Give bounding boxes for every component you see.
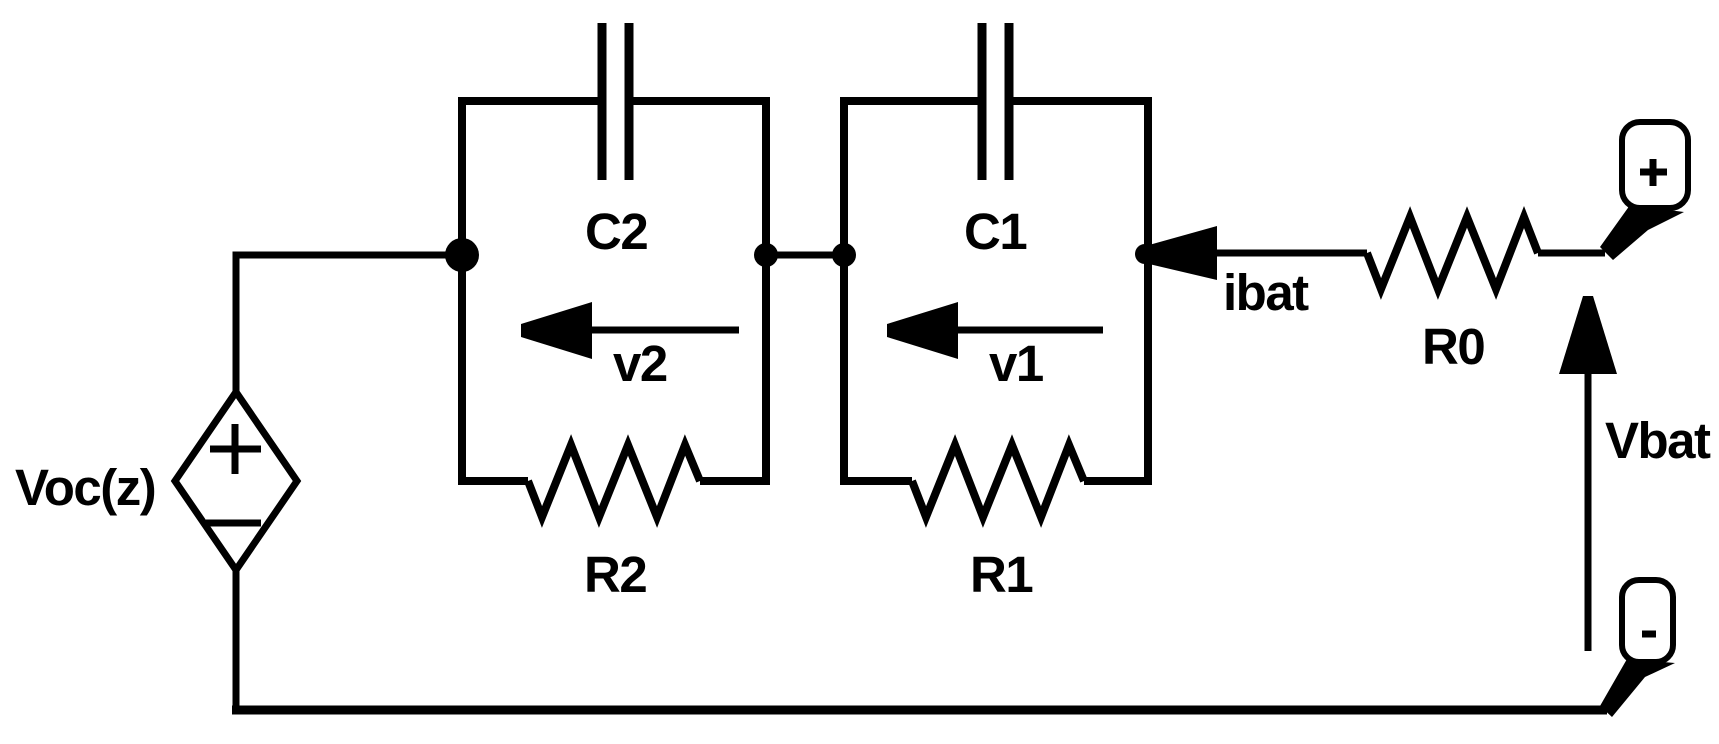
- node dot: [754, 243, 778, 267]
- node dot: [445, 238, 479, 272]
- wire: [462, 101, 601, 481]
- wire: [1600, 659, 1675, 717]
- arrow v1: [887, 302, 1103, 359]
- resistor R0: [1367, 217, 1538, 289]
- svg-text:Vbat: Vbat: [1605, 412, 1711, 469]
- wire: [1009, 101, 1148, 481]
- wire: [628, 101, 766, 481]
- resistor R1: [912, 445, 1084, 517]
- capacitor C1: [982, 23, 1009, 180]
- wire: [844, 101, 981, 481]
- arrow v2: [521, 302, 739, 359]
- wire: [766, 252, 844, 259]
- wire: [1600, 205, 1684, 260]
- terminal -: [1622, 580, 1673, 662]
- svg-text:R0: R0: [1422, 318, 1484, 375]
- svg-text:Voc(z): Voc(z): [15, 459, 155, 516]
- svg-text:R1: R1: [970, 546, 1032, 603]
- terminal +: [1622, 122, 1688, 208]
- svg-text:v1: v1: [989, 335, 1043, 392]
- svg-text:ibat: ibat: [1223, 264, 1309, 321]
- svg-text:R2: R2: [584, 546, 646, 603]
- wire: [233, 567, 240, 713]
- dependent source Voc(z): [175, 392, 297, 570]
- resistor R2: [528, 445, 700, 517]
- wire: [236, 255, 462, 392]
- voltage arrow Vbat: [1559, 296, 1617, 651]
- wire: [1538, 250, 1605, 257]
- node dot: [832, 243, 856, 267]
- current arrow ibat: [1149, 226, 1367, 280]
- svg-text:C2: C2: [585, 203, 647, 260]
- svg-text:C1: C1: [964, 203, 1026, 260]
- svg-text:v2: v2: [613, 335, 667, 392]
- node dot: [1135, 244, 1155, 264]
- wire: [232, 706, 1607, 715]
- capacitor C2: [602, 23, 629, 180]
